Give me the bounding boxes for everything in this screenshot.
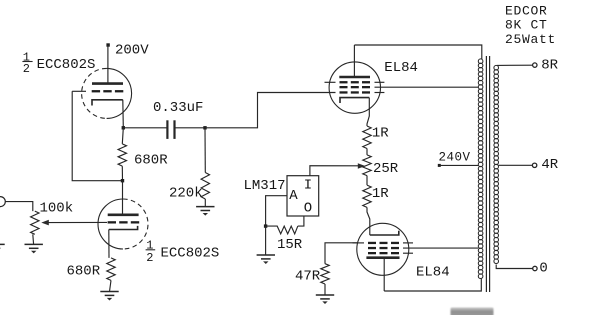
ground (47R): [316, 295, 334, 304]
pin label I: [304, 177, 312, 193]
label 240V: [439, 150, 471, 164]
svg-text:1R: 1R: [372, 126, 389, 142]
wire node B to V1b plate: [122, 181, 124, 214]
svg-text:15R: 15R: [277, 237, 303, 253]
svg-text:ECC802S: ECC802S: [161, 246, 220, 262]
V2 g2 lead / wire to UL tap: [375, 86, 479, 88]
V2 grid g2 (dashed): [340, 86, 371, 88]
label 0.33uF: [153, 100, 203, 116]
wire node D to ground: [265, 226, 267, 255]
label 1/2 ECC802S (V1b): [146, 239, 220, 265]
V3 g3 stub: [403, 252, 413, 254]
label 680R (lower): [67, 264, 101, 280]
node D junction: [264, 224, 267, 227]
label 47R: [295, 268, 321, 284]
pin label A: [289, 188, 298, 204]
pot wiper arrow / wire to V1b grid: [41, 220, 107, 226]
V1a cathode lead: [122, 100, 125, 128]
label 1/2 ECC802S (V1a): [22, 50, 95, 76]
svg-text:4R: 4R: [541, 157, 558, 173]
V3 cathode: [370, 231, 399, 235]
wire secondary 0 tap: [496, 265, 533, 269]
svg-text:0.33uF: 0.33uF: [153, 100, 203, 116]
ground (LM317): [257, 255, 275, 264]
resistor 680R (upper): [118, 128, 126, 181]
wire 240V to primary CT: [439, 164, 478, 166]
V1a plate lead: [107, 45, 109, 84]
T1 core: [486, 56, 489, 292]
V3 g1 stubs: [353, 242, 414, 244]
node A junction: [122, 126, 125, 129]
svg-text:25R: 25R: [373, 161, 399, 177]
supply dot 200V: [106, 43, 109, 46]
resistor 1R (upper): [363, 126, 371, 149]
V1a cathode: [92, 100, 123, 106]
label 4R: [541, 157, 558, 173]
label 680R (upper): [134, 152, 168, 168]
tube V1a 1/2 ECC802S circle: [82, 68, 132, 118]
wire secondary 8R tap: [497, 64, 533, 66]
node B junction: [121, 179, 124, 182]
T1 primary winding: [478, 59, 483, 279]
V2 g1 stub: [375, 92, 385, 94]
resistor 1R (lower): [363, 185, 371, 207]
svg-text:O: O: [304, 200, 312, 216]
terminal 4R: [532, 163, 536, 167]
wire secondary 4R tap: [499, 164, 533, 166]
V1b cathode: [109, 226, 138, 230]
V1a grid lead: [72, 90, 86, 92]
V3 grid g2 (dashed): [368, 247, 399, 249]
svg-text:8K CT: 8K CT: [505, 17, 548, 32]
V3 grid g3 (dashed): [368, 252, 399, 254]
ground (100k pot): [25, 244, 43, 253]
watermark artifact: [451, 308, 494, 315]
V2 g3 stubs: [325, 81, 385, 83]
svg-text:47R: 47R: [295, 268, 321, 284]
wire input to pot: [5, 202, 33, 212]
svg-text:ECC802S: ECC802S: [37, 57, 96, 73]
V1b grid (dashed): [108, 221, 140, 223]
V2 plate bar: [339, 76, 370, 79]
V3 plate lead: [383, 258, 385, 291]
svg-text:680R: 680R: [134, 152, 168, 168]
resistor 47R: [321, 264, 329, 295]
label 8R: [541, 58, 558, 74]
25R wiper arrow: [358, 163, 366, 169]
svg-text:680R: 680R: [67, 264, 101, 280]
resistor 680R (lower): [107, 258, 115, 292]
label LM317: [244, 178, 286, 194]
IC U1 LM317 box: [287, 176, 319, 216]
V1a grid (dashed): [92, 90, 124, 92]
V1b plate bar: [108, 214, 139, 217]
svg-text:25Watt: 25Watt: [505, 32, 556, 47]
wire V3 grid to 47R: [325, 243, 358, 264]
V2 plate lead: [353, 45, 355, 77]
pin label O: [304, 200, 312, 216]
svg-text:EL84: EL84: [384, 60, 418, 76]
label 200V: [115, 43, 149, 59]
label 0: [539, 261, 547, 277]
svg-text:EDCOR: EDCOR: [505, 4, 548, 19]
wire U1 input to 25R wiper: [310, 166, 359, 176]
wire V1a grid to node B: [72, 91, 122, 180]
wire 1R to V3 cathode: [367, 207, 370, 235]
V3 plate bar: [366, 256, 399, 259]
label 1R (lower): [372, 186, 389, 202]
V2 grid g3 (dashed): [340, 81, 371, 83]
svg-text:I: I: [304, 177, 312, 193]
svg-text:100k: 100k: [40, 200, 74, 216]
wire node C to V2 grid: [205, 93, 336, 128]
tube V1b 1/2 ECC802S circle: [98, 199, 148, 249]
wire V3 plate to T1 primary bottom: [384, 279, 481, 291]
tube V3 EL84 circle: [357, 223, 409, 275]
label 1R (upper): [372, 126, 389, 142]
svg-text:A: A: [289, 188, 298, 204]
terminal 8R: [533, 63, 537, 67]
svg-text:LM317: LM317: [244, 178, 286, 194]
svg-text:0: 0: [539, 261, 547, 277]
wire node A to C1: [123, 127, 167, 129]
V3 grid g1 (dashed): [368, 242, 399, 244]
V2 grid g1 (dashed): [340, 91, 371, 93]
240V feed dot: [438, 164, 441, 167]
wire 25R to 1R: [366, 176, 368, 186]
resistor 15R: [266, 226, 298, 234]
ground (220k): [196, 207, 214, 216]
label 15R: [277, 237, 303, 253]
ground (input shield): [0, 244, 5, 253]
svg-text:EL84: EL84: [416, 265, 450, 281]
V2 cathode lead: [367, 98, 369, 126]
V2 cathode: [340, 98, 369, 103]
node C junction: [203, 126, 206, 129]
ground (680R lower): [100, 292, 118, 301]
V1b cathode lead: [108, 230, 110, 258]
label EL84 (V2): [384, 60, 418, 76]
svg-text:2: 2: [146, 251, 153, 265]
potentiometer 25R: [363, 155, 371, 176]
wire C1 to node C: [175, 127, 206, 129]
wire 1R to 25R: [366, 149, 368, 155]
svg-text:2: 2: [23, 62, 30, 76]
svg-text:8R: 8R: [541, 58, 558, 74]
wire U1 adjust: [266, 196, 287, 226]
label 220k: [169, 185, 203, 201]
V3 g2 lead / wire to UL tap: [403, 247, 478, 249]
svg-text:200V: 200V: [115, 43, 149, 59]
resistor 220k: [201, 128, 209, 207]
potentiometer 100k: [31, 211, 39, 234]
input jack J1: [0, 197, 5, 207]
svg-text:1R: 1R: [372, 186, 389, 202]
label 25R: [373, 161, 399, 177]
T1 secondary winding: [494, 65, 499, 263]
wire U1 output: [298, 216, 304, 226]
label EL84 (V3): [416, 265, 450, 281]
terminal 0: [533, 266, 537, 270]
T1 label EDCOR 8K CT 25Watt: [505, 4, 556, 48]
label 100k: [40, 200, 74, 216]
V1a plate bar: [92, 82, 123, 85]
wire V2 plate to T1 primary top: [354, 45, 481, 59]
capacitor C1 0.33uF: [167, 120, 174, 139]
svg-text:240V: 240V: [439, 150, 471, 164]
wire pot to ground: [32, 234, 35, 244]
svg-text:220k: 220k: [169, 185, 203, 201]
tube V2 EL84 circle: [329, 62, 380, 113]
